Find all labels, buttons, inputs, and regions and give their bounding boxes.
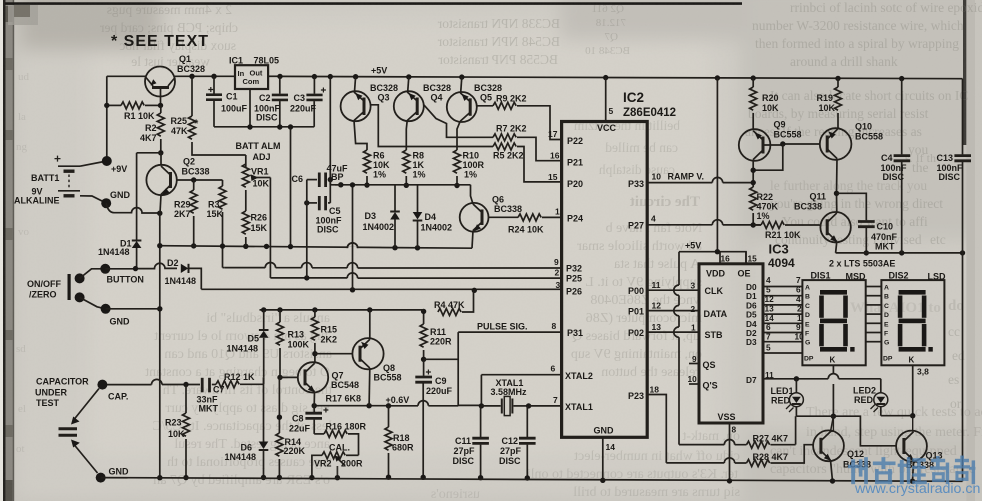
capacitor C8 xyxy=(305,406,328,434)
scan noise xyxy=(0,0,1,1)
resistor R13 xyxy=(277,310,284,380)
diode D4 1N4002 xyxy=(413,185,423,248)
resistor R9 xyxy=(493,102,562,139)
ground line under C1 C2 C3 xyxy=(214,126,314,128)
top-center mirrored bleed xyxy=(437,3,630,67)
transistor Q3 BC328 xyxy=(341,77,493,150)
terminal CAP. xyxy=(97,380,107,390)
capacitor C5 xyxy=(304,196,330,210)
capacitor C11 xyxy=(472,406,489,481)
resistor R5 xyxy=(493,143,562,182)
microcontroller IC2 Z86E0412 xyxy=(562,122,648,438)
capacitor C3 xyxy=(306,77,326,127)
bus P25 xyxy=(270,273,561,281)
wire +5V drop x=717.4 xyxy=(716,78,718,252)
LED1 RED xyxy=(786,379,803,416)
pin 15 stub xyxy=(745,252,747,264)
+0.6V row with hop over C9 wire xyxy=(314,405,458,407)
regulator IC1 78L05 xyxy=(235,65,280,127)
resistor R22 xyxy=(750,187,757,228)
gnd rail (battery ground) xyxy=(160,246,472,249)
P33 RAMP V. wire pin 10 xyxy=(647,183,753,187)
wire +5V to C6/C5 right plates xyxy=(329,77,331,203)
wire Q10 base to Q9 collector xyxy=(780,141,785,146)
terminal GND test xyxy=(96,473,106,483)
resistor R3 xyxy=(219,180,226,268)
transistor Q5 BC328 xyxy=(447,77,493,150)
resistor R2 xyxy=(157,105,164,155)
wire +5V drop to R27 x=679 xyxy=(678,252,680,445)
wire Q1 collector to IC1 In xyxy=(175,75,235,77)
crystal XTAL1 3.58MHz xyxy=(481,396,561,415)
shift register IC3 4094 xyxy=(699,264,763,423)
top border line xyxy=(5,2,742,5)
resistor R29 xyxy=(190,180,197,249)
top-right bleed column xyxy=(745,0,982,247)
diode D2 1N4148 xyxy=(177,264,201,290)
resistor R28 xyxy=(666,445,813,467)
+5V rail top xyxy=(280,76,963,78)
+5V branch line to IC3 xyxy=(679,252,746,264)
gnd vertical left x=160 xyxy=(159,213,161,478)
riser VR1 wiper to bus P25 xyxy=(269,178,271,278)
resistor R18 xyxy=(385,406,392,480)
resistor R20 xyxy=(750,78,757,129)
resistor R16 xyxy=(314,430,358,455)
resistor R23 xyxy=(183,385,190,481)
char 5 xyxy=(954,456,976,485)
trimpot VR2 CAL xyxy=(309,452,358,481)
resistor R26 xyxy=(242,211,249,246)
P27 wire pin 4 to R21 xyxy=(647,224,761,226)
capacitor C9 xyxy=(415,359,432,480)
char 1 xyxy=(848,457,868,484)
display DIS1 MSD xyxy=(802,280,865,365)
wire +9V top line to Q1 emitter xyxy=(107,75,146,77)
upper rail of Q7/Q8 block xyxy=(260,309,424,311)
DIS2 K wire xyxy=(912,365,914,415)
wire Q12 collector node to Q13 base xyxy=(833,416,896,446)
wire pulse to R11 bottom xyxy=(424,358,459,360)
char 3 xyxy=(898,457,927,484)
diode D1 1N4148 xyxy=(132,153,161,268)
wire Q7 base row to R12 xyxy=(263,377,265,384)
bottom ground bus xyxy=(101,478,963,482)
capacitor C4 xyxy=(894,79,911,253)
resistor R21 xyxy=(753,222,820,229)
PULSE SIG. wire pin 8 xyxy=(458,331,561,333)
char 2 xyxy=(873,457,896,484)
terminal GND2 xyxy=(101,304,111,314)
node RAMP/R22 xyxy=(751,180,756,185)
diode D5 1N4148 xyxy=(259,310,269,378)
right page edge xyxy=(963,0,966,145)
bottom-left mirrored rows xyxy=(145,311,332,488)
wire LED1 node to Q12 collector xyxy=(796,415,833,417)
resistor R27 xyxy=(679,439,796,448)
wire R27 right end up to LED1 node xyxy=(795,416,797,444)
DIS1 K wire with hop over D7 bus xyxy=(832,365,834,416)
potentiometer VR1 xyxy=(242,155,270,211)
pin 8 VSS wire xyxy=(729,423,731,481)
node C1 top xyxy=(211,74,216,79)
resistor R7 xyxy=(493,134,562,161)
riser test row to bus P26 xyxy=(352,185,354,290)
transistor Q7 BC548 xyxy=(280,362,328,406)
char 4 xyxy=(930,456,949,484)
under display heading rows xyxy=(770,405,982,477)
capacitor C1 xyxy=(206,76,222,127)
capacitor C12 xyxy=(519,406,536,481)
node R25 top xyxy=(189,74,194,79)
svg-text:www.crystalradio.cn: www.crystalradio.cn xyxy=(854,481,980,497)
bus P32 xyxy=(223,263,562,269)
MCU to IC3 wires P00 P01 P02 xyxy=(647,289,699,291)
transistor Q4 BC328 xyxy=(394,77,493,150)
resistor R24 xyxy=(518,214,562,221)
wire C6/C5 left plates down to bus P25 xyxy=(306,180,308,278)
MCU pin numbers xyxy=(548,106,661,452)
top-left mirrored bleed xyxy=(100,2,238,69)
resistor R19 xyxy=(835,78,842,128)
pin 14 GND wire xyxy=(602,437,604,480)
battery BATT1 xyxy=(55,156,107,203)
blue watermark: stylized CJK blocks + url xyxy=(848,456,975,485)
resistor R11 xyxy=(420,309,427,362)
bus P26 xyxy=(201,287,561,293)
transistor Q2 BC338 xyxy=(146,153,222,213)
right middle heading xyxy=(850,151,965,411)
terminal +9V xyxy=(102,156,112,166)
capacitor C2 xyxy=(272,76,288,127)
LED2 RED xyxy=(871,379,888,416)
capacitor C6 xyxy=(307,173,331,188)
capacitor C10 xyxy=(837,193,875,255)
wire C-bottoms to gnd rail xyxy=(290,127,292,246)
transistor Q1 BC328 xyxy=(145,67,175,106)
resistor R8 xyxy=(403,150,410,188)
middle mirrored fragments xyxy=(573,118,680,177)
page edge bands xyxy=(0,0,3,501)
resistor R14 xyxy=(276,377,283,480)
resistor R4 xyxy=(424,290,474,315)
transistor Q8 BC558 xyxy=(315,310,384,406)
transistor Q9 BC558 xyxy=(739,129,783,182)
terminal GND battery xyxy=(101,198,111,208)
XTAL2 wire pin 6 xyxy=(481,374,561,376)
DIS1 to DIS2 segment links xyxy=(866,287,882,342)
transistor Q11 BC338 xyxy=(820,193,851,253)
resistor R12 xyxy=(216,381,264,388)
capacitor C13 xyxy=(954,79,971,482)
transistor Q12 BC338 xyxy=(813,416,844,483)
diode D6 1N4148 xyxy=(259,377,269,480)
display DIS2 LSD xyxy=(881,280,944,365)
gnd return row y=253 xyxy=(836,252,963,254)
capacitor C7 xyxy=(102,378,216,393)
Q'S stub pin 10 xyxy=(689,383,699,385)
IC3 to DIS1 segment wires xyxy=(763,287,802,354)
transistor Q6 BC338 xyxy=(460,185,518,248)
wire LED2 node to Q13 collector xyxy=(881,415,913,417)
QS stub pin 9 xyxy=(689,363,699,365)
pushbutton ON/OFF xyxy=(68,264,111,309)
left margin fragments xyxy=(16,71,30,455)
wire C6 right to row xyxy=(330,180,341,185)
resistor R25 xyxy=(189,76,246,155)
pin 5 VCC wire xyxy=(605,78,607,122)
resistor R1 xyxy=(104,102,163,109)
capacitor under test symbol with arrows xyxy=(59,389,100,474)
P23 pin 18 wire xyxy=(647,395,666,463)
button wire to D2 with hop over gnd vertical xyxy=(105,263,177,269)
transistor Q13 BC338 xyxy=(896,416,927,484)
wire +9V vertical from top line to battery terminal xyxy=(106,76,108,161)
resistor R6 xyxy=(364,150,371,188)
diode D3 1N4002 xyxy=(390,185,400,248)
wire battery gnd to Q2 emitter with hop over D1 xyxy=(106,203,160,213)
hop on gnd rail over x=352.5 riser xyxy=(347,243,357,248)
transistor Q10 BC558 xyxy=(783,128,852,193)
D7 LED bus pin 11 xyxy=(763,378,881,380)
test node row xyxy=(330,184,470,186)
resistor R10 xyxy=(454,150,461,188)
resistor R15 xyxy=(311,310,318,362)
